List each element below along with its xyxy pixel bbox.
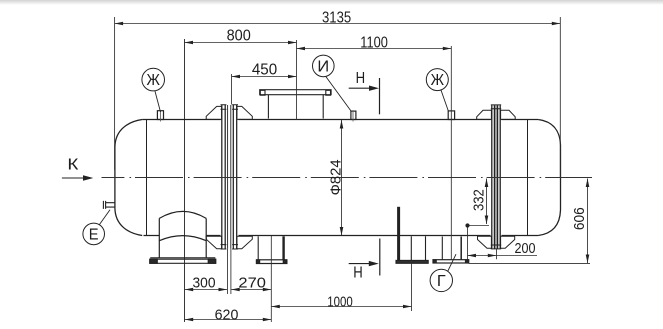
big bottom nozzle body [159, 211, 206, 257]
girth flange right: gusset top-right [501, 110, 516, 119]
right flange centre stub [496, 249, 498, 259]
svg-text:1100: 1100 [360, 35, 388, 52]
ext 1100 right [450, 46, 452, 259]
top shadow band [0, 0, 663, 5]
svg-text:Ф824: Ф824 [328, 159, 344, 195]
dim 1100 line [297, 48, 452, 50]
dim 3135 ext left [114, 17, 116, 170]
svg-text:Е: Е [89, 227, 99, 244]
girth flange right: gusset bottom-left [478, 236, 492, 248]
label circle Zh1 [142, 68, 165, 112]
ext nozzle2 centre [270, 236, 272, 322]
arrows 3135 [115, 22, 124, 26]
nozzle I target (small center coupling) [351, 110, 356, 121]
section mark H top [349, 70, 380, 114]
support standpipe thick bar [397, 207, 400, 260]
ext support centre [411, 264, 413, 312]
bottom nozzle 2 body [257, 236, 259, 259]
label circle E [83, 210, 110, 245]
svg-text:Ж: Ж [147, 72, 161, 89]
arrows 1000 [271, 305, 280, 309]
ref line bottom level [469, 262, 590, 264]
shell top line [142, 119, 538, 121]
arrows 332 [485, 179, 489, 188]
dim 800 line [185, 42, 297, 44]
nozzle Zh1 (left top) [157, 110, 163, 121]
arrows 800 [185, 41, 194, 45]
manhole flange [260, 90, 331, 96]
girth flange left: gusset top-left [206, 106, 221, 119]
dim 300-270 line [185, 289, 272, 291]
section mark H bottom [349, 239, 380, 282]
arrows 1100 [297, 47, 306, 51]
big bottom nozzle flange [150, 258, 216, 264]
manhole riser [268, 95, 323, 119]
label circle Zh2 [426, 69, 448, 111]
arrows 300 [185, 288, 194, 292]
ext 450 left [231, 74, 233, 105]
shell bottom line [144, 235, 539, 237]
arrows 606 [586, 179, 590, 188]
dim 3135 line [115, 23, 561, 25]
arrows 200 [468, 254, 477, 258]
support base plate [396, 260, 428, 263]
girth flange right: studs [491, 105, 501, 249]
arrows 270 [231, 288, 240, 292]
svg-text:Н: Н [356, 70, 366, 87]
svg-text:620: 620 [215, 307, 239, 324]
dimension arrowheads [115, 22, 590, 322]
girth flange left: gusset bottom-right [237, 236, 252, 249]
svg-text:332: 332 [472, 189, 488, 211]
svg-text:200: 200 [515, 241, 536, 257]
ref point lines 332 [468, 226, 490, 260]
svg-text:3135: 3135 [322, 10, 351, 27]
arrows 450 [232, 75, 241, 79]
svg-text:1000: 1000 [327, 293, 353, 310]
right head [538, 120, 560, 236]
label circle G [430, 254, 456, 291]
arrows phi824 [340, 120, 344, 129]
label K with flow arrow [62, 157, 93, 181]
right head weld seam [527, 120, 529, 236]
svg-text:Н: Н [353, 265, 363, 282]
left head [115, 120, 142, 236]
svg-text:300: 300 [193, 274, 216, 291]
girth flange left: extended face lines [228, 249, 231, 294]
svg-text:606: 606 [572, 207, 588, 230]
svg-text:800: 800 [227, 27, 251, 44]
svg-text:Г: Г [437, 273, 446, 290]
left head weld seam [146, 120, 148, 236]
dim texts [193, 10, 589, 324]
svg-text:270: 270 [238, 274, 266, 291]
tubesheet weld line [184, 39, 186, 322]
svg-text:К: К [67, 157, 78, 174]
dim 450 line [232, 76, 297, 78]
girth flange left: gusset top-right [237, 106, 252, 119]
nozzle G body [441, 237, 443, 260]
support leg profile [411, 236, 425, 260]
dim 3135 ext right [559, 17, 561, 177]
arrows 620 [185, 318, 194, 322]
girth flange right: gusset bottom-right [501, 236, 515, 248]
girth flange right: gusset top-left [477, 110, 492, 119]
svg-text:И: И [317, 59, 329, 76]
nozzle Zh2 (right top) [448, 111, 454, 120]
dim 332 line [486, 179, 488, 225]
bottom nozzle 2 flange [256, 260, 287, 264]
ref point dot [465, 223, 469, 227]
girth flange left: studs [221, 105, 239, 249]
label circle I [313, 55, 352, 111]
svg-text:Ж: Ж [431, 72, 445, 89]
dim phi824 line [341, 120, 343, 236]
dim 1000 line [271, 306, 411, 308]
dim 200 line [468, 255, 538, 257]
girth flange left: gusset bottom-left [206, 236, 221, 249]
dim 606 line [587, 179, 589, 264]
nozzle G flange [433, 260, 469, 263]
ext manhole centre [296, 40, 298, 120]
centerline (vessel axis) [102, 177, 593, 179]
svg-text:450: 450 [252, 62, 277, 79]
dim 620 line [185, 319, 272, 321]
nozzle E (left head) [103, 201, 115, 209]
